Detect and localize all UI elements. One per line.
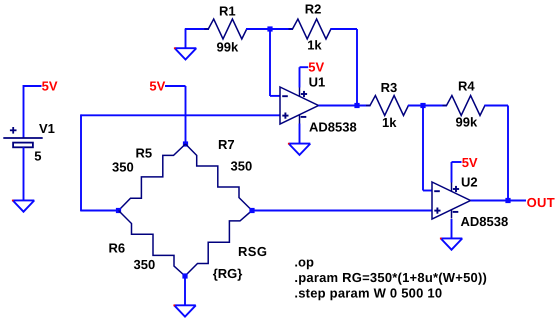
wire bridge bottom to ground: [184, 276, 186, 305]
svg-text:.param RG=350*(1+8u*(W+50)): .param RG=350*(1+8u*(W+50)): [294, 270, 487, 285]
svg-text:5V: 5V: [308, 59, 324, 74]
svg-text:R1: R1: [219, 4, 236, 19]
ground (under R1 left): [185, 29, 187, 48]
svg-text:5V: 5V: [42, 79, 58, 94]
ground (V1): [13, 200, 35, 211]
svg-text:99k: 99k: [217, 40, 239, 55]
svg-text:350: 350: [231, 159, 253, 174]
wire 5V stub to U2 V+: [452, 161, 462, 163]
svg-text:AD8538: AD8538: [309, 119, 357, 134]
svg-text:1k: 1k: [307, 38, 322, 53]
svg-text:1k: 1k: [382, 115, 397, 130]
wire R3 to node D: [408, 105, 447, 107]
svg-text:5: 5: [34, 149, 41, 164]
svg-text:350: 350: [112, 160, 134, 175]
svg-text:.op: .op: [294, 254, 314, 269]
svg-text:{RG}: {RG}: [213, 266, 243, 281]
voltage source V1 battery symbol: [3, 138, 42, 147]
svg-text:99k: 99k: [456, 115, 478, 130]
wire R4 right + down to output node: [484, 105, 508, 107]
resistor R6 (bridge lower-left): [119, 211, 186, 277]
svg-text:U1: U1: [309, 74, 326, 89]
wire U2 output to OUT: [471, 200, 527, 202]
resistor R7 (bridge upper-right): [186, 144, 253, 211]
resistor R4: [443, 96, 489, 116]
svg-text:R4: R4: [458, 79, 475, 94]
op-amp U2: [432, 182, 471, 219]
node L junction (bridge left): [116, 208, 121, 213]
resistor R2: [289, 19, 335, 39]
resistor R1: [204, 19, 250, 39]
ground (U1): [289, 144, 311, 155]
ground (bridge): [174, 305, 196, 316]
node D junction (R3/R4/U2-): [420, 103, 425, 108]
wire 5V stub to V1: [24, 85, 42, 87]
svg-text:OUT: OUT: [527, 195, 555, 210]
svg-text:5V: 5V: [149, 79, 165, 94]
op-amp U1: [280, 87, 319, 124]
wire R1 to node A: [246, 28, 270, 30]
wire node A down to U1 - input: [269, 29, 271, 96]
wire R2 right + down to U1 output node: [330, 28, 357, 30]
svg-text:RSG: RSG: [238, 244, 267, 259]
svg-text:R6: R6: [109, 241, 126, 256]
wire left rail vertical: [80, 114, 82, 211]
wire node D down to U2 - input: [422, 106, 424, 191]
ground (U2): [441, 238, 463, 249]
node B junction (bridge bottom): [182, 273, 187, 278]
wire bridge right node to U2 + input: [252, 210, 432, 212]
svg-text:R2: R2: [305, 2, 322, 17]
wire U1 output to R3: [319, 105, 371, 107]
svg-text:V1: V1: [39, 121, 55, 136]
resistor R3: [366, 96, 412, 116]
wire left rail to U1 + input: [81, 114, 280, 116]
svg-text:R7: R7: [218, 137, 235, 152]
wire U2 V- to ground: [451, 219, 453, 238]
svg-text:350: 350: [134, 257, 156, 272]
wire U1 V- to ground: [299, 124, 301, 144]
node C junction (U1 out / R2): [354, 103, 359, 108]
svg-text:U2: U2: [461, 174, 478, 189]
svg-text:5V: 5V: [462, 155, 478, 170]
svg-text:AD8538: AD8538: [461, 214, 509, 229]
node T junction (bridge top): [183, 141, 188, 146]
wire 5V stub to U1 V+: [300, 66, 309, 68]
node A junction (R1/R2/U1-): [267, 26, 272, 31]
node R junction (bridge right): [249, 208, 254, 213]
wire node A to R2: [270, 28, 293, 30]
svg-text:.step param W 0 500 10: .step param W 0 500 10: [294, 286, 442, 301]
svg-text:R5: R5: [136, 146, 153, 161]
svg-text:R3: R3: [381, 80, 398, 95]
wire R1 ground stub to R1 left: [185, 28, 209, 30]
resistor RSG (bridge lower-right strain gauge): [185, 211, 252, 277]
wire V1 to ground: [23, 147, 25, 200]
plus sign of V1: [10, 127, 17, 134]
node OUT junction (U2 out / R4): [505, 198, 510, 203]
wire 5V to bridge top node: [165, 85, 186, 87]
wire bridge left node to left rail: [81, 210, 119, 212]
resistor R5 (bridge upper-left): [119, 144, 186, 211]
